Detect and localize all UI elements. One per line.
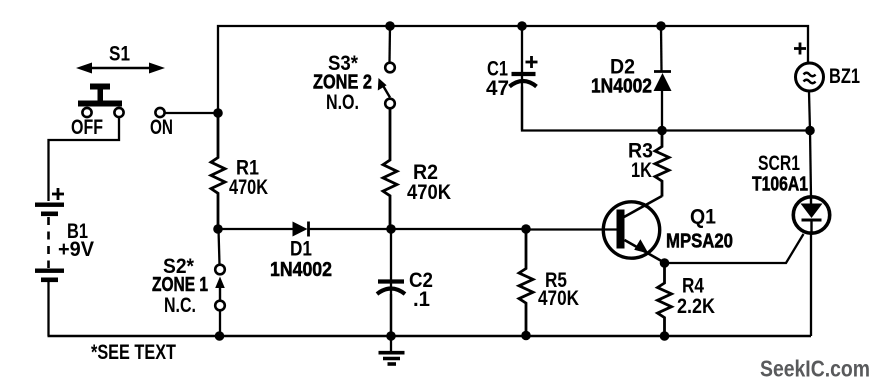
battery B1 cell 2 short plate (41, 278, 58, 283)
junction: S2 / bottom bus (215, 331, 225, 341)
wire: top bus to C1 (521, 26, 523, 130)
wire: mid-right bus to SCR anode (810, 131, 811, 198)
switch S1 double arrow (76, 63, 165, 74)
transistor Q1 base bar (617, 210, 625, 249)
transistor Q1 body (603, 202, 659, 258)
SCR1 body (793, 197, 829, 233)
capacitor C1 top plate (512, 72, 536, 76)
resistor R5 (519, 229, 533, 336)
transistor Q1 emitter with arrow (625, 239, 666, 263)
junction: Q1 emitter node (660, 258, 670, 268)
wire: battery to bottom bus (47, 282, 49, 336)
switch S1 OFF terminal left (82, 108, 91, 117)
wire: SCR cathode to bottom bus (810, 233, 812, 336)
wire: mid-right bus (662, 129, 810, 131)
junction: C1 top node (517, 21, 527, 31)
svg-text:1N4002: 1N4002 (270, 259, 332, 281)
junction: ON node (213, 108, 223, 118)
switch S3 arrow actuator (378, 78, 390, 98)
resistor R2 (383, 109, 397, 230)
battery B1 plus sign (52, 188, 64, 200)
battery B1 dashed link (47, 217, 50, 268)
junction: BZ1 bottom node (805, 126, 815, 136)
wire: C2 to bottom bus (390, 294, 392, 336)
switch S2 arrow actuator (215, 277, 225, 301)
junction: D2 top node (656, 21, 666, 31)
junction: R1 bottom / D1 anode node (213, 224, 223, 234)
svg-text:T106A1: T106A1 (752, 174, 808, 196)
svg-text:MPSA20: MPSA20 (666, 231, 733, 253)
wire: C2 node down (390, 229, 392, 336)
wire: mid bus left segment (R1 node to D1) (218, 228, 293, 230)
svg-text:OFF: OFF (71, 116, 103, 139)
wire: Q1 collector lead (624, 196, 662, 217)
resistor R1 (211, 113, 225, 229)
svg-text:1K: 1K (631, 159, 652, 182)
diode D1 (293, 222, 309, 237)
svg-text:470K: 470K (538, 287, 579, 310)
svg-text:BZ1: BZ1 (829, 65, 860, 88)
switch S1 slide actuator (78, 84, 122, 107)
resistor R3 (655, 131, 669, 197)
switch S3 bottom terminal (385, 99, 395, 109)
SCR1 triangle (801, 204, 823, 219)
svg-text:SeekIC.com: SeekIC.com (760, 356, 870, 382)
wire: top bus to D2 cathode (660, 26, 663, 71)
capacitor C2 top plate (378, 279, 404, 283)
svg-text:470K: 470K (229, 176, 268, 199)
battery B1 cell 1 long plate (35, 203, 64, 207)
diode D2 (654, 72, 672, 92)
wire: S2 to bottom bus (219, 311, 221, 337)
wire: OFF terminal down to battery (49, 118, 120, 202)
junction: C2 node (386, 224, 396, 234)
svg-text:470K: 470K (407, 181, 451, 204)
junction: C2 ground node (386, 331, 396, 341)
svg-text:N.C.: N.C. (164, 294, 196, 317)
wire: D2 anode to mid-right bus (661, 91, 663, 131)
svg-text:ZONE 1: ZONE 1 (152, 274, 208, 296)
SCR1 cathode line (810, 220, 812, 233)
buzzer BZ1 plus sign (794, 43, 806, 55)
wire: D1 cathode to C2 node (309, 228, 392, 230)
switch S2 top terminal (215, 265, 225, 275)
wire: junction down to S2 (219, 229, 220, 265)
svg-text:Q1: Q1 (690, 206, 716, 229)
battery B1 cell 2 long plate (35, 269, 64, 273)
capacitor C2 curved plate (377, 289, 405, 295)
buzzer BZ1 wave symbol (804, 73, 816, 84)
wire: top bus to S3 (388, 26, 391, 62)
wire: C1 down and right to D2 bottom node (522, 87, 662, 131)
wire: bottom ground bus (48, 335, 812, 337)
svg-text:D1: D1 (290, 238, 312, 261)
switch S1 ON terminal (155, 108, 164, 117)
ground (379, 336, 405, 364)
SCR1 anode line (810, 197, 812, 204)
svg-text:+9V: +9V (58, 238, 94, 261)
switch S2 bottom terminal (215, 301, 225, 311)
junction: R3 top node (657, 126, 667, 136)
wire: ON terminal to R1 column (166, 112, 219, 114)
svg-text:*SEE TEXT: *SEE TEXT (91, 341, 176, 364)
SCR1 cathode bar (802, 219, 822, 222)
wire: R5 node to Q1 base (526, 228, 618, 230)
wire: SCR gate (665, 234, 804, 263)
svg-text:SCR1: SCR1 (758, 152, 800, 175)
capacitor C1 plus sign (526, 56, 538, 68)
svg-text:N.O.: N.O. (326, 91, 359, 114)
wire: mid bus to R5 node (391, 228, 526, 230)
svg-text:2.2K: 2.2K (677, 295, 715, 318)
switch S3 top terminal (385, 63, 395, 73)
svg-text:S1: S1 (109, 43, 130, 66)
resistor R4 (658, 263, 672, 336)
battery B1 cell 1 short plate (41, 212, 58, 217)
junction: R5 node (521, 224, 531, 234)
junction: S3 top node (385, 21, 395, 31)
svg-text:1N4002: 1N4002 (591, 76, 652, 98)
buzzer BZ1 body (796, 63, 824, 91)
svg-text:.1: .1 (413, 288, 430, 311)
capacitor C1 curved plate (510, 81, 537, 87)
junction: R4 bottom node (660, 331, 670, 341)
wire: top supply bus (218, 26, 808, 113)
svg-text:47: 47 (486, 77, 509, 100)
junction: R5 bottom node (521, 331, 531, 341)
wire: BZ1 to mid-right bus (809, 92, 810, 131)
switch S1 OFF terminal right (114, 108, 123, 117)
svg-text:ON: ON (150, 116, 173, 139)
